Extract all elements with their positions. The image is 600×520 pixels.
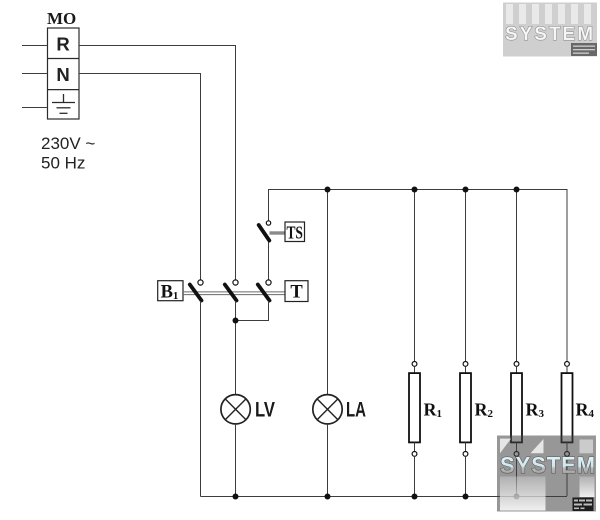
wire R from MO to pole 2 of B1	[79, 46, 236, 280]
junction node bottom-LV	[233, 494, 239, 500]
junction node bottom-R2	[463, 494, 469, 500]
wire N from MO to pole 1 of B1	[79, 74, 201, 280]
wire bus down to lamp LA	[327, 189, 329, 395]
wire R phase from supply to MO	[22, 45, 48, 47]
watermark bottom right	[497, 436, 596, 512]
wire TS to pole 3 of B1	[268, 241, 270, 280]
switch B1 pole 1	[198, 280, 203, 285]
bottom bus wire	[201, 496, 568, 498]
svg-text:T: T	[290, 283, 303, 303]
resistor R4	[562, 189, 595, 496]
junction node bottom-R3	[514, 494, 520, 500]
wire pole3 down joining pole2 branch	[236, 301, 269, 321]
resistor R2	[460, 189, 494, 496]
switch TS linkage	[270, 231, 286, 234]
lamp LV	[221, 395, 250, 424]
switch B1 box	[158, 281, 183, 301]
svg-text:LA: LA	[346, 399, 366, 422]
junction node pole2/pole3	[233, 318, 239, 324]
svg-text:SYSTEM: SYSTEM	[505, 24, 595, 45]
junction node bus-LA	[325, 187, 331, 193]
wire pole1 down to bottom bus	[200, 301, 202, 497]
junction node bus-R3	[514, 187, 520, 193]
wire earth from supply to MO	[22, 107, 48, 109]
switch TS blade	[259, 225, 270, 241]
terminal block MO box	[48, 28, 80, 119]
wire pole2 down to lamp LV	[235, 301, 237, 395]
switch TS contact terminal	[266, 221, 270, 225]
svg-text:50 Hz: 50 Hz	[41, 154, 85, 173]
junction node bottom-R1	[412, 494, 418, 500]
lamp LA	[313, 395, 342, 424]
svg-text:230V ~: 230V ~	[41, 134, 95, 153]
wire lamp LA to bottom bus	[327, 424, 329, 497]
svg-text:MO: MO	[47, 9, 76, 28]
switch B1 pole 2	[233, 280, 238, 285]
wire lamp LV to bottom bus	[235, 424, 237, 497]
svg-text:SYSTEM: SYSTEM	[500, 452, 596, 478]
wire bus to TS contact	[268, 189, 270, 221]
junction node bus-R2	[463, 187, 469, 193]
resistor R3	[511, 189, 545, 496]
switch B1 linkage double line	[183, 291, 285, 293]
switch TS box	[285, 222, 305, 242]
svg-text:LV: LV	[255, 399, 275, 422]
wire N neutral from supply to MO	[22, 73, 48, 75]
resistor R1	[409, 189, 442, 496]
ground symbol in MO block	[52, 94, 75, 113]
watermark top right	[503, 3, 597, 57]
switch T box	[285, 281, 308, 302]
svg-text:TS: TS	[286, 223, 303, 243]
junction node bus-R1	[412, 187, 418, 193]
switch B1 pole 3	[266, 280, 271, 285]
svg-text:R: R	[56, 34, 69, 55]
top bus wire	[269, 189, 568, 191]
junction node bottom-LA	[325, 494, 331, 500]
svg-text:N: N	[56, 64, 69, 85]
